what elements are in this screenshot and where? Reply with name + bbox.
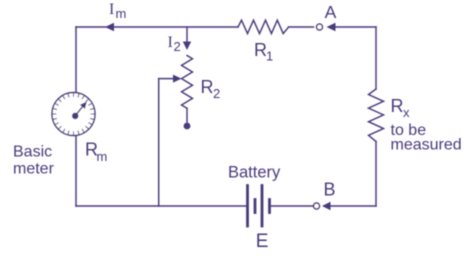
svg-text:B: B [324, 180, 336, 200]
meter dial ticks [53, 93, 95, 135]
svg-text:I: I [168, 34, 173, 51]
resistor R1 [238, 20, 289, 33]
label Rx [391, 96, 411, 120]
current arrow Im on top wire [105, 23, 114, 31]
arrow into node B [322, 202, 331, 210]
svg-text:R: R [201, 77, 214, 97]
svg-text:2: 2 [213, 86, 220, 101]
svg-text:A: A [325, 2, 337, 22]
branch wire I2 [186, 27, 188, 42]
svg-text:Battery: Battery [228, 164, 281, 182]
svg-text:measured: measured [391, 137, 462, 154]
wire B to battery [272, 205, 314, 207]
svg-text:1: 1 [266, 49, 273, 64]
svg-text:2: 2 [174, 39, 181, 54]
battery E plate long right [261, 186, 264, 227]
label Basic meter [13, 144, 55, 178]
current arrow I2 [183, 42, 191, 51]
svg-text:meter: meter [13, 161, 55, 178]
meter needle [75, 106, 83, 116]
svg-text:x: x [403, 105, 410, 120]
wiper arrow of R2 [159, 78, 174, 80]
label R2 [201, 77, 221, 101]
svg-text:R: R [391, 96, 404, 116]
battery E plate long left [246, 186, 249, 227]
label to be measured [391, 122, 462, 154]
wire bottom right (corner to B arrow) [331, 205, 377, 207]
wire right vertical lower [375, 142, 377, 207]
resistor R2 (rheostat) [182, 56, 193, 109]
battery E plate short right [268, 200, 271, 213]
svg-text:m: m [97, 149, 108, 164]
label R1 [254, 40, 273, 64]
meter body circle [52, 93, 95, 136]
wire top-left (A to Im corner) [76, 26, 238, 28]
wire bottom left (battery to left corner) [76, 205, 248, 207]
wire R2 to open terminal [186, 108, 188, 122]
svg-text:E: E [256, 231, 269, 251]
arrow into node A [327, 23, 336, 31]
meter needle pivot dot [72, 113, 79, 120]
wiper wire down to bottom [158, 79, 160, 206]
label I2 [168, 34, 181, 54]
wire left vertical [75, 27, 77, 206]
wire A to top-right corner [336, 26, 377, 28]
svg-text:Basic: Basic [13, 144, 52, 161]
open terminal dot of R2 [184, 123, 191, 130]
resistor Rx [369, 89, 384, 142]
label Rm [85, 140, 107, 165]
node A terminal circle [317, 24, 323, 30]
battery E plate short left [254, 200, 257, 213]
wire right vertical upper [375, 27, 377, 89]
node B terminal circle [314, 203, 320, 209]
svg-text:m: m [116, 6, 127, 21]
label Im [109, 1, 126, 21]
wire R1 to node A [289, 26, 314, 28]
svg-text:I: I [109, 1, 114, 18]
